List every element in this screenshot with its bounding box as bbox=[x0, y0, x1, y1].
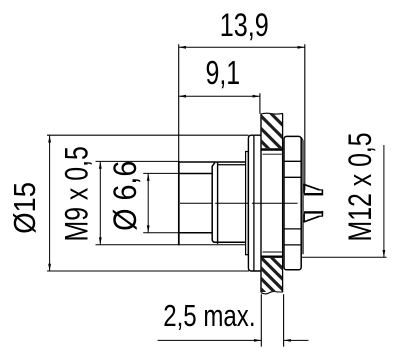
solder lug lower bbox=[304, 211, 323, 222]
panel rear face bbox=[282, 114, 284, 293]
extension line Ø15 top bbox=[47, 134, 249, 136]
bore Ø6,6 bottom edge bbox=[179, 232, 212, 234]
nut facet line 2 bbox=[284, 176, 301, 178]
solder lug upper bbox=[304, 184, 323, 195]
M12 thread root top bbox=[263, 153, 282, 155]
extension line panel rear bottom bbox=[283, 294, 285, 346]
extension line Ø6,6 top bbox=[143, 172, 179, 174]
M9 thread crest top bbox=[178, 161, 246, 163]
panel hole bottom edge bbox=[261, 256, 284, 258]
extension line panel front bottom bbox=[260, 294, 262, 346]
extension line M12 bottom bbox=[302, 256, 387, 258]
panel top cut edge bbox=[261, 112, 283, 115]
extension line M9 bottom bbox=[96, 244, 179, 246]
nut facet line 3 bbox=[284, 228, 301, 230]
panel front face bbox=[260, 114, 262, 293]
bore Ø6,6 top edge bbox=[179, 173, 212, 175]
svg-text:M9 x 0,5: M9 x 0,5 bbox=[59, 146, 95, 241]
svg-text:2,5 max.: 2,5 max. bbox=[163, 298, 255, 333]
flange Ø15 bbox=[248, 135, 261, 271]
nut chamfer corner top bbox=[301, 137, 303, 140]
extension line M9 top bbox=[96, 160, 179, 162]
rear nut body bbox=[284, 136, 301, 269]
svg-text:13,9: 13,9 bbox=[220, 8, 269, 44]
bore end vertical bbox=[212, 163, 215, 243]
connector front face bbox=[178, 161, 180, 245]
M12 thread root bottom bbox=[263, 251, 282, 253]
extension line front face (top) bbox=[178, 44, 180, 161]
M9 thread root bottom bbox=[214, 241, 246, 243]
extension line rear (13,9 right) bbox=[304, 44, 306, 190]
flange chamfer line bbox=[253, 136, 255, 271]
svg-text:9,1: 9,1 bbox=[206, 55, 241, 92]
svg-text:Ø 6,6: Ø 6,6 bbox=[106, 161, 143, 231]
dimension line M12 bbox=[383, 145, 385, 257]
nut facet line 4 bbox=[284, 244, 301, 246]
gasket ring bbox=[246, 152, 249, 255]
hatch panel bottom bbox=[240, 226, 300, 328]
dimension line 9,1 bbox=[179, 95, 260, 97]
center line bbox=[180, 202, 298, 204]
M9 thread root top bbox=[218, 164, 246, 166]
nut facet line 1 bbox=[284, 160, 301, 162]
extension line Ø15 bottom bbox=[47, 270, 249, 272]
dimension line Ø 6,6 bbox=[147, 174, 149, 233]
M9 thread crest bottom bbox=[178, 244, 246, 246]
dimension line M9 bbox=[99, 162, 101, 245]
dimension line 13,9 bbox=[179, 46, 305, 48]
panel bottom break edge bbox=[261, 291, 283, 294]
extension line panel front (9,1 right) bbox=[259, 93, 261, 114]
hatch panel top bbox=[240, 83, 300, 193]
svg-text:M12 x 0,5: M12 x 0,5 bbox=[343, 132, 379, 241]
extension line Ø6,6 bottom bbox=[143, 232, 179, 234]
dimension line Ø15 bbox=[49, 135, 51, 271]
thread runout vertical bbox=[217, 162, 219, 244]
nut chamfer line bbox=[302, 141, 304, 255]
dimension line 2,5 right part bbox=[284, 339, 309, 341]
dimension line 2,5 left part bbox=[158, 339, 262, 341]
svg-text:Ø15: Ø15 bbox=[9, 182, 43, 234]
panel hole top edge bbox=[261, 148, 284, 150]
